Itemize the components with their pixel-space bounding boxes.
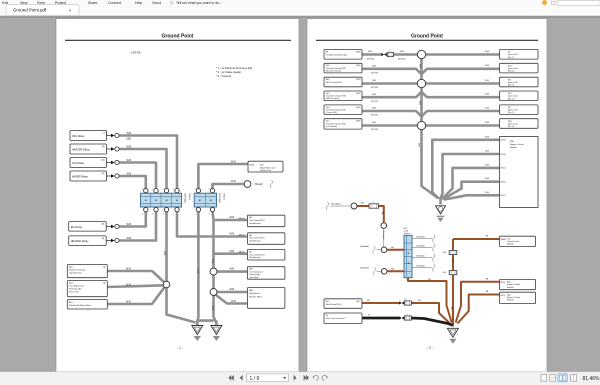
svg-text:Module: Module bbox=[507, 244, 514, 246]
svg-text:DRL Relay: DRL Relay bbox=[72, 134, 85, 138]
branch to gas control ECU no.3 bbox=[214, 252, 248, 255]
svg-text:(No. 6): (No. 6) bbox=[508, 126, 514, 128]
svg-text:(W1-7): (W1-7) bbox=[501, 195, 507, 197]
svg-text:(6AQ-6): (6AQ-6) bbox=[238, 217, 245, 220]
svg-text:- 1 -: - 1 - bbox=[177, 346, 183, 350]
svg-text:(B): (B) bbox=[102, 173, 105, 175]
svg-text:(Center Diff.): (Center Diff.) bbox=[326, 111, 338, 114]
svg-text:A21: A21 bbox=[443, 251, 446, 254]
wire D14 row to junction B bbox=[362, 69, 422, 74]
box gas control ECU no.3 bbox=[247, 250, 285, 261]
top chrome bar bbox=[0, 0, 600, 16]
wire A51 to junction J5 bbox=[108, 288, 165, 305]
svg-text:W-B: W-B bbox=[485, 65, 490, 67]
svg-text:with Actuator: with Actuator bbox=[249, 222, 261, 225]
svg-text:- 2 -: - 2 - bbox=[427, 346, 433, 350]
svg-text:W-B: W-B bbox=[485, 107, 490, 109]
svg-text:W-B: W-B bbox=[230, 233, 235, 236]
svg-text:Share: Share bbox=[88, 1, 97, 5]
trunk segment A-B bbox=[420, 59, 423, 79]
junction C bbox=[417, 121, 425, 129]
inline connector F3 bbox=[449, 271, 457, 275]
svg-text:3: 3 bbox=[152, 213, 153, 215]
relay box ST2 bbox=[70, 158, 107, 168]
svg-text:(B): (B) bbox=[102, 146, 105, 148]
wire S4 to strip B46 bbox=[387, 270, 404, 272]
svg-text:WIPER Relay: WIPER Relay bbox=[72, 174, 89, 178]
svg-text:Igniter Coil: Igniter Coil bbox=[508, 109, 518, 112]
document tab bbox=[6, 5, 79, 17]
wire ECM E1 branch to ground ED bbox=[458, 295, 500, 324]
wire ECM E2 branch to ground ED bbox=[456, 282, 500, 323]
ECM wire row 4 bbox=[443, 182, 500, 200]
svg-text:W-B: W-B bbox=[231, 161, 236, 164]
ground EA symbol bbox=[192, 326, 203, 335]
wire B9 row to junction A bbox=[362, 53, 381, 56]
svg-text:Skid Control ECU: Skid Control ECU bbox=[326, 303, 342, 306]
history forward icon bbox=[322, 375, 327, 380]
svg-text:(4H4): (4H4) bbox=[250, 164, 255, 166]
svg-text:(B): (B) bbox=[103, 267, 106, 269]
svg-text:W-B: W-B bbox=[127, 146, 132, 149]
wire A53 to junction J5 bbox=[108, 285, 164, 287]
box igniter coil no.2 bbox=[500, 63, 539, 73]
box B24 wiper motor assembly bbox=[248, 161, 283, 172]
svg-text:Wiper Motor and: Wiper Motor and bbox=[260, 166, 275, 169]
svg-text:Transfer Indicator S/W: Transfer Indicator S/W bbox=[326, 67, 346, 70]
svg-text:Windshield: Windshield bbox=[249, 293, 260, 295]
svg-text:4: 4 bbox=[142, 213, 143, 215]
brown trunk down segment 3 to ground ED bbox=[452, 275, 454, 327]
svg-text:(No. 3): (No. 3) bbox=[508, 85, 514, 87]
box igniter coil no.1 bbox=[500, 50, 539, 60]
relay box HEATER bbox=[70, 144, 107, 154]
box A51 wiper motor bbox=[67, 300, 107, 310]
search magnifier icon bbox=[170, 1, 172, 3]
brown trunk down segment 1 bbox=[452, 239, 454, 250]
wire strip J2 pin 6 trunk down bbox=[213, 212, 214, 269]
svg-text:HEATER Relay: HEATER Relay bbox=[71, 239, 89, 243]
svg-text:(Shielded): (Shielded) bbox=[382, 231, 384, 240]
svg-text:W-B: W-B bbox=[417, 143, 419, 148]
svg-text:W-B: W-B bbox=[372, 108, 377, 110]
svg-text:(Shielded): (Shielded) bbox=[417, 265, 426, 267]
wire junction J4 to A58 bbox=[217, 291, 248, 294]
svg-text:A56: A56 bbox=[249, 268, 252, 271]
ECM wire row 2 bbox=[440, 154, 499, 199]
ECM wire row 3 bbox=[442, 168, 500, 199]
svg-text:3: 3 bbox=[152, 188, 153, 190]
right row pin labels bbox=[501, 54, 506, 127]
page 2 title rule bbox=[316, 39, 538, 41]
svg-text:(Neutral Position): (Neutral Position) bbox=[326, 69, 342, 72]
menu items bbox=[2, 1, 161, 5]
wire B77 to filter F4 bbox=[362, 302, 399, 304]
svg-text:W-B: W-B bbox=[230, 288, 235, 291]
ground EA stub bbox=[196, 321, 199, 326]
svg-text:(3H3): (3H3) bbox=[356, 121, 361, 123]
wire junction B to igniter no.2 bbox=[422, 69, 500, 74]
svg-text:(Front RH): (Front RH) bbox=[249, 276, 258, 279]
svg-text:1: 1 bbox=[173, 213, 174, 215]
ECM wire labels W-B bbox=[485, 136, 490, 194]
svg-text:Igniter Coil: Igniter Coil bbox=[508, 53, 518, 56]
svg-text:* 1 : w/ Daytime Running Light: * 1 : w/ Daytime Running Light bbox=[216, 66, 252, 70]
box A56 turn signal front RH bbox=[247, 267, 285, 280]
svg-text:Ground Point.pdf: Ground Point.pdf bbox=[13, 8, 47, 13]
svg-text:Tell me what you want to do...: Tell me what you want to do... bbox=[176, 1, 222, 5]
strip J2 bottom pins bbox=[196, 207, 200, 211]
black wire F5 to ground ED bbox=[411, 318, 452, 325]
svg-text:W-B: W-B bbox=[230, 250, 235, 253]
svg-text:Parking Light: Parking Light bbox=[249, 273, 261, 276]
svg-text:W-B: W-B bbox=[485, 51, 490, 53]
wire B24 to strip J2 pin 6 bbox=[198, 164, 248, 188]
svg-text:W-B: W-B bbox=[127, 132, 132, 135]
svg-text:Washer Motor: Washer Motor bbox=[249, 295, 262, 298]
wire B60 row to junction B bbox=[362, 82, 417, 85]
svg-text:(+): (+) bbox=[102, 133, 105, 135]
svg-text:(SP-2R5): (SP-2R5) bbox=[367, 58, 374, 60]
svg-text:(Shielded): (Shielded) bbox=[417, 255, 426, 257]
page number box bbox=[247, 374, 289, 382]
svg-text:W-B: W-B bbox=[485, 94, 490, 96]
history back icon bbox=[314, 375, 319, 380]
svg-text:W-B: W-B bbox=[372, 80, 377, 82]
strip J1 top pins bbox=[144, 188, 148, 192]
box B60 4WD control ECU bbox=[324, 77, 362, 87]
svg-text:Data Link Connector 3: Data Link Connector 3 bbox=[326, 317, 347, 320]
wire from HEATER relay to strip J1 pin 3 bbox=[119, 149, 166, 188]
wire D16 row to junction C bbox=[362, 111, 422, 116]
filter F5 bbox=[404, 316, 411, 320]
box D17 transfer indicator bbox=[324, 119, 362, 129]
box ECM E1 bbox=[500, 292, 536, 303]
box B77 skid control bbox=[324, 299, 362, 309]
connector circle S1 bbox=[351, 203, 357, 209]
wire labels W-B right column bbox=[230, 216, 235, 291]
wire F4 to ground ED bbox=[411, 303, 449, 323]
wire junction A to igniter no.1 bbox=[426, 53, 500, 56]
strip J2 top pins bbox=[196, 188, 200, 192]
svg-text:W-B: W-B bbox=[372, 66, 377, 68]
svg-text:(B): (B) bbox=[102, 238, 105, 240]
ECM wire row 5 bbox=[444, 195, 500, 199]
svg-text:1 / 9: 1 / 9 bbox=[250, 376, 260, 382]
ground EB stub bbox=[215, 321, 218, 326]
svg-text:(SP-2R5): (SP-2R5) bbox=[371, 87, 378, 89]
wire D17 row to junction C bbox=[362, 124, 417, 127]
svg-text:(Shielded): (Shielded) bbox=[331, 203, 341, 205]
svg-text:1: 1 bbox=[407, 314, 408, 316]
svg-text:(No. 2): (No. 2) bbox=[508, 71, 514, 73]
ECM box B30 bbox=[500, 137, 539, 208]
svg-text:Light Resistor: Light Resistor bbox=[69, 272, 82, 275]
svg-text:(2H3): (2H3) bbox=[356, 79, 361, 81]
view mode single icon bbox=[541, 375, 547, 382]
svg-text:(No. 5): (No. 5) bbox=[508, 112, 514, 114]
svg-text:(SP-2R5): (SP-2R5) bbox=[398, 58, 405, 60]
connector strip J1 bbox=[141, 193, 182, 207]
svg-text:Help: Help bbox=[135, 1, 142, 5]
connector symbol HEATER bbox=[107, 148, 112, 150]
svg-text:Ground Point: Ground Point bbox=[411, 34, 443, 40]
relay box WIPER bbox=[70, 171, 107, 181]
svg-text:(Shielded): (Shielded) bbox=[360, 246, 369, 248]
svg-text:Gas Control ECU: Gas Control ECU bbox=[249, 219, 265, 222]
svg-text:(4H3): (4H3) bbox=[356, 93, 361, 95]
svg-text:Gas Control ECU: Gas Control ECU bbox=[249, 253, 265, 256]
svg-text:W-B: W-B bbox=[419, 101, 421, 106]
svg-text:GND 2: GND 2 bbox=[222, 194, 224, 201]
wire S1 to filter F1 bbox=[357, 205, 369, 207]
svg-text:ST2 Relay: ST2 Relay bbox=[72, 161, 85, 165]
svg-text:W-B: W-B bbox=[126, 268, 131, 271]
svg-text:* 2 : w/ Intake Heater: * 2 : w/ Intake Heater bbox=[216, 70, 241, 74]
wire F1 corner down to S2 bbox=[379, 206, 384, 223]
box A58 washer motor bbox=[247, 288, 285, 309]
svg-text:W-B: W-B bbox=[372, 122, 377, 124]
tab strip bottom line bbox=[0, 14, 600, 16]
svg-text:Engine Control: Engine Control bbox=[507, 283, 521, 286]
box L35 camera module bbox=[500, 236, 536, 246]
branch to gas control ECU no.1 bbox=[214, 219, 248, 222]
svg-text:6: 6 bbox=[209, 213, 210, 215]
connector strip B46 bbox=[404, 235, 412, 277]
svg-text:(B): (B) bbox=[102, 224, 105, 226]
view mode facing continuous icon bbox=[571, 375, 577, 382]
brown trunk top corner to L35 bbox=[453, 238, 500, 240]
box D14 transfer indicator bbox=[324, 63, 362, 73]
right row labels W-B bbox=[485, 51, 490, 124]
wire strip J1 pin 3 trunk to ground EA bbox=[165, 212, 168, 281]
svg-text:W-B: W-B bbox=[400, 51, 405, 53]
wire labels W-B relays bbox=[127, 132, 132, 176]
strip J2 pin numbers bbox=[196, 188, 210, 215]
svg-text:81.46%: 81.46% bbox=[583, 376, 600, 382]
svg-text:Turn Signal and: Turn Signal and bbox=[69, 285, 84, 288]
toolbar bottom shadow bbox=[0, 16, 600, 18]
svg-text:6: 6 bbox=[209, 188, 210, 190]
svg-text:4WD Control ECU: 4WD Control ECU bbox=[326, 81, 343, 84]
black wire E1 DLC to filter F5 bbox=[362, 317, 399, 320]
junction B bbox=[417, 79, 425, 87]
svg-text:W-B: W-B bbox=[197, 269, 199, 274]
wire from ST2 relay to strip J1 pin 2 bbox=[119, 163, 156, 189]
svg-text:W-B: W-B bbox=[485, 192, 490, 194]
svg-text:1GR-FE: 1GR-FE bbox=[131, 51, 141, 55]
noise filter body bbox=[387, 52, 393, 56]
svg-text:W-B: W-B bbox=[485, 151, 490, 153]
wire labels W-B left lower bbox=[126, 268, 131, 304]
svg-text:W-B: W-B bbox=[127, 223, 132, 226]
ground ED symbol bbox=[447, 328, 458, 337]
ground EB symbol bbox=[211, 326, 222, 335]
svg-text:W-B: W-B bbox=[211, 259, 213, 264]
svg-text:W-B: W-B bbox=[127, 159, 132, 162]
svg-text:Igniter Coil: Igniter Coil bbox=[508, 95, 518, 98]
ground EC symbol bbox=[436, 206, 446, 214]
svg-text:Transfer Indicator S/W: Transfer Indicator S/W bbox=[326, 122, 346, 125]
svg-text:(No. 1): (No. 1) bbox=[508, 57, 514, 59]
svg-text:(W2-4): (W2-4) bbox=[501, 140, 507, 142]
note block bbox=[216, 66, 252, 78]
wire D15 row to trunk bbox=[362, 92, 422, 97]
filter F1 bbox=[369, 204, 379, 208]
svg-text:Igniter Coil: Igniter Coil bbox=[508, 67, 518, 70]
svg-text:W-B: W-B bbox=[485, 136, 490, 138]
svg-text:W-B: W-B bbox=[230, 268, 235, 271]
svg-text:(W3-2): (W3-2) bbox=[501, 168, 507, 170]
small icon bbox=[552, 1, 556, 4]
trunk segment B-C bbox=[420, 88, 423, 121]
shield squiggle bbox=[270, 180, 272, 188]
box gas control ECU no.1 bbox=[247, 215, 285, 227]
nav last page icon bbox=[304, 375, 309, 381]
ECM pin labels bbox=[501, 140, 507, 198]
svg-text:GND 1: GND 1 bbox=[188, 194, 190, 201]
svg-text:A21: A21 bbox=[443, 271, 446, 274]
svg-text:Connect: Connect bbox=[108, 1, 121, 5]
relay box DRL bbox=[70, 131, 107, 141]
wire A52 to junction J5 bbox=[108, 271, 165, 282]
wire S3 to strip B46 bbox=[387, 249, 404, 251]
svg-text:×: × bbox=[69, 8, 72, 13]
svg-text:W-B: W-B bbox=[126, 301, 131, 304]
svg-text:W-B: W-B bbox=[368, 51, 373, 53]
view mode continuous icon bbox=[550, 375, 556, 382]
wire strip J1 pin 1 to EFI relay bbox=[119, 212, 146, 227]
svg-text:Module: Module bbox=[510, 147, 518, 149]
box igniter coil no.4 bbox=[500, 91, 539, 101]
svg-text:(SP-2R5): (SP-2R5) bbox=[371, 73, 378, 75]
svg-text:Module: Module bbox=[507, 287, 514, 289]
view mode facing icon active bbox=[558, 374, 567, 382]
svg-text:Transfer Indicator S/W: Transfer Indicator S/W bbox=[326, 95, 346, 98]
svg-text:Cloud: Cloud bbox=[152, 1, 161, 5]
nav next page icon bbox=[294, 375, 297, 381]
svg-text:(W3H2): (W3H2) bbox=[500, 239, 506, 241]
junction J4 bbox=[210, 289, 217, 296]
nav first page icon bbox=[228, 375, 233, 381]
svg-text:(Front LH): (Front LH) bbox=[69, 291, 79, 294]
avatar circle bbox=[542, 0, 547, 5]
svg-text:W-B: W-B bbox=[127, 173, 132, 176]
filter F4 bbox=[404, 301, 411, 305]
svg-text:Igniter Coil: Igniter Coil bbox=[508, 122, 518, 125]
svg-text:Ground Point: Ground Point bbox=[162, 34, 194, 40]
svg-text:Gas Control ECU: Gas Control ECU bbox=[249, 237, 265, 240]
svg-text:Transfer Indicator S/W: Transfer Indicator S/W bbox=[326, 108, 346, 111]
svg-text:EFI Relay: EFI Relay bbox=[71, 225, 83, 229]
filter F4 bowtie bbox=[399, 301, 402, 304]
svg-text:Engine Control: Engine Control bbox=[510, 143, 524, 146]
wire from WIPER relay to strip J1 pin 1 bbox=[119, 176, 146, 188]
box igniter coil no.3 bbox=[500, 77, 539, 87]
svg-text:W-B: W-B bbox=[372, 94, 377, 96]
box ECM E2 bbox=[500, 279, 536, 289]
connector strip J2 bbox=[194, 193, 216, 207]
strip J1 pin numbers bbox=[142, 188, 174, 215]
connector symbol EFI bbox=[106, 226, 111, 228]
svg-text:(W3-4): (W3-4) bbox=[501, 182, 507, 184]
shielded stub node S1 bbox=[330, 205, 351, 207]
connector symbol WIPER bbox=[107, 175, 112, 177]
svg-text:4: 4 bbox=[142, 188, 143, 190]
svg-text:Turn Signal and: Turn Signal and bbox=[249, 270, 262, 273]
svg-text:(No. 4): (No. 4) bbox=[508, 98, 514, 100]
relay box heater no.2 bbox=[69, 236, 107, 246]
connector circle S4 bbox=[381, 269, 387, 275]
svg-text:(A-C): (A-C) bbox=[356, 300, 360, 303]
junction A bbox=[417, 50, 425, 58]
nav prev page icon bbox=[240, 375, 243, 381]
ground bus link EA-EB bbox=[197, 319, 213, 322]
svg-text:W-B: W-B bbox=[485, 80, 490, 82]
svg-text:Junction: Junction bbox=[404, 232, 411, 235]
svg-text:5: 5 bbox=[196, 188, 197, 190]
svg-text:(Shield): (Shield) bbox=[255, 184, 263, 186]
connector symbol heater no.2 bbox=[106, 240, 111, 242]
svg-text:1: 1 bbox=[173, 188, 174, 190]
box D16 transfer indicator bbox=[324, 105, 362, 115]
connector symbol ST2 bbox=[107, 162, 112, 164]
svg-text:W-B: W-B bbox=[163, 251, 165, 256]
svg-text:(Shielded): (Shielded) bbox=[417, 236, 426, 238]
svg-text:(B): (B) bbox=[103, 283, 106, 285]
noise filter bowtie bbox=[381, 53, 384, 57]
wire junction C to igniter no.6 bbox=[426, 124, 500, 127]
brown trunk down segment 2 bbox=[452, 255, 454, 271]
svg-text:(W2-6): (W2-6) bbox=[501, 154, 507, 156]
wire from DRL relay to strip J1 pin 4 bbox=[119, 136, 177, 189]
filter F5 bowtie bbox=[399, 316, 402, 319]
svg-text:Module: Module bbox=[507, 300, 514, 302]
strip J1 bottom pins bbox=[144, 207, 148, 211]
svg-text:Windshield Wiper Motor: Windshield Wiper Motor bbox=[69, 304, 91, 307]
ground EC stub bbox=[439, 198, 442, 205]
wire junction C to igniter no.5 bbox=[422, 111, 500, 116]
svg-text:(SP-2R5): (SP-2R5) bbox=[371, 115, 378, 117]
connector circle S2 bbox=[381, 223, 387, 229]
svg-text:W-B: W-B bbox=[231, 180, 236, 183]
wire junction J4 diagonal to A58 pin 2 bbox=[216, 295, 248, 304]
wire junction J3 to A56 bbox=[217, 270, 248, 273]
svg-text:Washer Unit: Washer Unit bbox=[260, 169, 271, 172]
svg-text:(5H3): (5H3) bbox=[356, 107, 361, 109]
junction J3 bbox=[210, 268, 217, 275]
svg-text:(+B): (+B) bbox=[101, 160, 105, 162]
connector symbol DRL bbox=[107, 135, 112, 137]
ECM wire row 1 bbox=[432, 140, 499, 199]
svg-text:(SP-2R5): (SP-2R5) bbox=[371, 129, 378, 131]
shielded run S2-S3 bbox=[383, 228, 385, 247]
relay box EFI bbox=[69, 222, 107, 232]
svg-text:2: 2 bbox=[163, 213, 164, 215]
wire strip B46 bottom to ground ED bbox=[408, 278, 452, 323]
svg-text:Engine Control: Engine Control bbox=[507, 296, 521, 299]
box igniter coil no.5 bbox=[500, 105, 539, 115]
box B9 PCS actuator bbox=[324, 50, 362, 60]
trunk junction J4 to ground EB bbox=[214, 295, 217, 322]
strip B46 title bbox=[404, 228, 411, 235]
svg-text:7.5: 7.5 bbox=[404, 299, 407, 301]
svg-text:HEATER Relay: HEATER Relay bbox=[72, 147, 90, 151]
svg-text:(SP-2R5): (SP-2R5) bbox=[371, 101, 378, 103]
row wire labels left bbox=[368, 51, 405, 124]
shield connector circle bbox=[244, 181, 251, 188]
svg-text:W: W bbox=[368, 315, 370, 317]
